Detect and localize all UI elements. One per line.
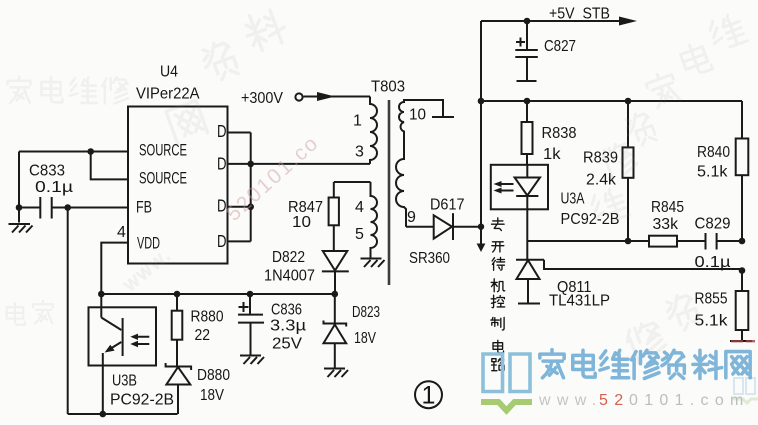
logo url: [538, 392, 750, 409]
svg-text:FB: FB: [136, 198, 152, 217]
svg-text:D823: D823: [352, 304, 380, 321]
svg-text:5.1k: 5.1k: [697, 164, 729, 181]
svg-text:+300V: +300V: [241, 90, 283, 107]
svg-text:18V: 18V: [200, 387, 224, 404]
ground (aux winding): [361, 259, 385, 268]
shunt reg Q811 TL431LP: [516, 241, 742, 310]
wire bottom rail: [68, 411, 178, 418]
svg-text:SR360: SR360: [409, 250, 450, 267]
svg-text:0.1µ: 0.1µ: [35, 179, 73, 196]
svg-text:10: 10: [409, 107, 426, 124]
logo blue text: [540, 350, 750, 379]
svg-text:T803: T803: [371, 79, 405, 96]
svg-text:3: 3: [355, 144, 364, 161]
svg-text:1k: 1k: [543, 146, 562, 163]
capacitor C827: [515, 21, 576, 81]
ground (D823): [324, 369, 348, 378]
svg-text:5: 5: [355, 226, 364, 243]
resistor R838: [522, 101, 577, 165]
svg-text:U3A: U3A: [561, 191, 585, 208]
svg-text:D822: D822: [272, 249, 305, 266]
wire source1 to left: [19, 151, 128, 153]
node +300V input: [241, 90, 370, 107]
arrow to standby control: [477, 227, 486, 252]
wire main secondary vertical: [478, 21, 485, 230]
wire output rail: [481, 98, 742, 105]
svg-text:5.1k: 5.1k: [695, 313, 729, 330]
svg-text:R838: R838: [542, 125, 577, 142]
node +5V_STB rail: [481, 6, 637, 26]
svg-text:33k: 33k: [653, 216, 679, 233]
svg-text:1: 1: [422, 382, 436, 410]
svg-text:1N4007: 1N4007: [264, 268, 315, 285]
resistor R847: [288, 182, 339, 251]
optocoupler U3B box: [89, 307, 175, 408]
resistor R839: [583, 101, 634, 241]
LED U3A: [494, 165, 541, 241]
ground (C833 left): [9, 224, 33, 233]
svg-text:+5V_STB: +5V_STB: [549, 6, 610, 23]
svg-text:52: 52: [599, 392, 629, 409]
svg-text:TL431LP: TL431LP: [549, 293, 610, 310]
wire left vertical: [16, 152, 23, 223]
op-amp U4 VIPer22A box: [117, 64, 228, 264]
svg-text:C829: C829: [695, 216, 731, 233]
svg-text:www.: www.: [538, 392, 602, 409]
transformer aux winding 4-5: [355, 182, 377, 258]
resistor R845: [649, 199, 706, 247]
svg-text:R845: R845: [651, 199, 684, 216]
svg-text:3.3µ: 3.3µ: [270, 318, 306, 335]
transformer core: [388, 100, 391, 285]
zener D880: [166, 363, 230, 414]
svg-text:D880: D880: [197, 367, 230, 384]
svg-text:C836: C836: [271, 302, 302, 319]
wire drain to primary: [251, 163, 370, 165]
svg-text:VIPer22A: VIPer22A: [136, 86, 200, 103]
wire drain stubs: [228, 133, 251, 242]
capacitor C833: [29, 163, 73, 219]
svg-text:4: 4: [117, 224, 126, 241]
svg-text:22: 22: [195, 327, 211, 344]
svg-text:4: 4: [355, 199, 364, 216]
svg-text:D617: D617: [430, 197, 465, 214]
capacitor C836: [238, 294, 306, 355]
svg-text:SOURCE: SOURCE: [139, 169, 187, 188]
svg-text:C833: C833: [29, 163, 65, 180]
svg-text:D: D: [217, 154, 227, 174]
svg-text:R855: R855: [695, 291, 728, 308]
wire drain bus: [247, 133, 254, 242]
svg-text:1: 1: [353, 113, 362, 130]
svg-text:0101.com: 0101.com: [629, 392, 750, 409]
node standby label column: [491, 218, 505, 371]
svg-text:PC92-2B: PC92-2B: [110, 392, 174, 409]
svg-text:U4: U4: [160, 64, 178, 81]
svg-text:10: 10: [292, 214, 311, 231]
ground (C836): [240, 356, 264, 365]
capacitor C829: [695, 216, 743, 272]
logo book icon: [481, 354, 532, 411]
svg-text:9: 9: [407, 209, 416, 226]
diode D617 SR360: [406, 197, 481, 268]
svg-text:C827: C827: [544, 38, 576, 55]
svg-text:D: D: [217, 121, 227, 141]
resistor R880: [172, 294, 224, 367]
svg-text:R840: R840: [697, 144, 730, 161]
diode D822 1N4007: [264, 249, 349, 294]
wire feedback line: [527, 238, 649, 245]
resistor R840: [697, 101, 748, 241]
svg-text:25V: 25V: [272, 336, 302, 353]
resistor R855: [695, 271, 753, 342]
svg-text:U3B: U3B: [112, 373, 137, 390]
svg-text:18V: 18V: [354, 330, 376, 347]
transformer secondary winding 10-9: [396, 100, 454, 227]
wire VDD lead: [98, 243, 128, 318]
optocoupler U3A box: [491, 165, 620, 228]
svg-text:R880: R880: [191, 309, 224, 326]
transistor U3B phototransistor: [101, 318, 149, 415]
svg-text:SOURCE: SOURCE: [139, 141, 187, 160]
wire aux bridge: [334, 181, 371, 183]
wire FB line: [19, 204, 128, 211]
svg-text:D: D: [217, 231, 227, 251]
transformer T803 primary winding: [353, 79, 405, 164]
wire VDD rail: [101, 291, 338, 298]
node circled 1: [415, 381, 442, 409]
node source2 jog: [87, 148, 128, 179]
wire FB drop: [67, 208, 69, 415]
wire right vertical nodes: [739, 238, 746, 274]
zener D823: [324, 294, 381, 368]
